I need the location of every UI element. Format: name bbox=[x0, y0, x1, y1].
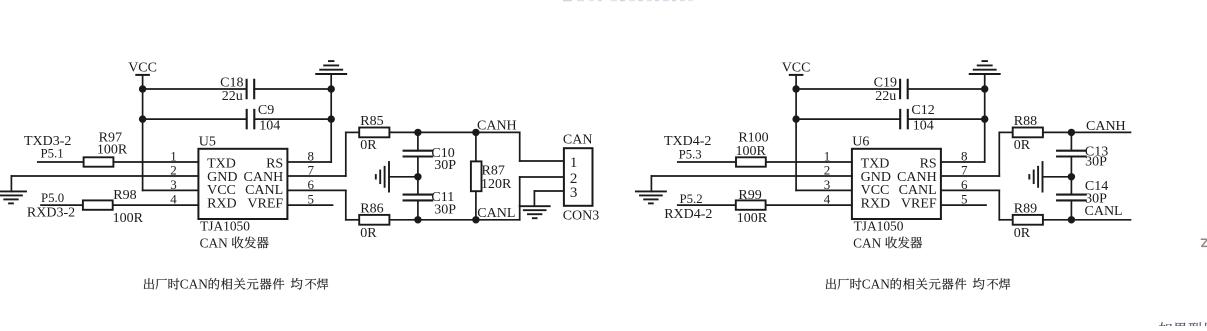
svg-text:CAN: CAN bbox=[563, 133, 593, 148]
wire CANH net bbox=[389, 131, 519, 133]
capacitor C13 30P bbox=[1057, 132, 1108, 176]
ground (earth, between 30P caps) bbox=[376, 162, 418, 192]
value label CAN收发器 bbox=[200, 235, 269, 250]
wire P5.3 to TXD pin 1 bbox=[678, 161, 852, 163]
note 出厂时CAN的相关元器件均不焊 bbox=[144, 277, 328, 292]
note 出厂时CAN的相关元器件均不焊 bbox=[826, 277, 1010, 292]
svg-text:RXD: RXD bbox=[861, 196, 891, 211]
svg-text:P5.3: P5.3 bbox=[679, 147, 702, 161]
capacitor C11 30P bbox=[404, 177, 457, 220]
svg-text:R99: R99 bbox=[738, 188, 761, 203]
junction bbox=[414, 129, 421, 136]
svg-text:3: 3 bbox=[170, 177, 177, 192]
junction bbox=[414, 216, 421, 223]
wire CANH pin 7 bbox=[287, 132, 359, 176]
junction bbox=[1068, 129, 1075, 136]
ground (earth, input side) bbox=[0, 190, 26, 192]
wire RS pin 8 to ground vertical bbox=[287, 161, 331, 163]
svg-text:R88: R88 bbox=[1014, 114, 1037, 129]
clipped page heading (top edge) bbox=[563, 0, 693, 1]
junction bbox=[414, 173, 421, 180]
svg-text:CON3: CON3 bbox=[563, 209, 600, 224]
junction bbox=[981, 85, 988, 92]
junction bbox=[472, 129, 479, 136]
junction bbox=[792, 115, 799, 122]
wire P5.0 to RXD pin 4 bbox=[41, 204, 198, 206]
wire CANH net bbox=[1043, 131, 1131, 133]
svg-text:3: 3 bbox=[570, 185, 578, 201]
junction bbox=[139, 85, 146, 92]
ground (earth, under connector) bbox=[520, 205, 550, 207]
junction bbox=[328, 115, 335, 122]
resistor R97 100R bbox=[84, 131, 128, 167]
wire CANH pin 7 bbox=[941, 132, 1013, 176]
wire top rail 2 (VCC to ground via C9) bbox=[143, 118, 332, 120]
svg-text:RXD3-2: RXD3-2 bbox=[27, 206, 75, 221]
wire GND pin 2 to ground bbox=[651, 176, 852, 191]
connector CON3 bbox=[563, 133, 600, 224]
svg-text:CAN: CAN bbox=[200, 235, 228, 250]
svg-text:CANL: CANL bbox=[1085, 204, 1123, 219]
ground (earth, input side) bbox=[636, 190, 666, 192]
wire CANL pin 6 bbox=[287, 190, 359, 219]
svg-text:P5.1: P5.1 bbox=[41, 147, 64, 161]
svg-text:0R: 0R bbox=[1014, 226, 1031, 241]
svg-text:R98: R98 bbox=[113, 188, 136, 203]
svg-text:0R: 0R bbox=[360, 138, 377, 153]
wire ground vertical to RS pin bbox=[984, 89, 986, 162]
power symbol VCC bbox=[128, 61, 157, 90]
wire CANL net bbox=[389, 219, 519, 221]
wire top rail 1 (VCC to ground via C19) bbox=[796, 88, 985, 90]
wire RS pin 8 to ground vertical bbox=[941, 161, 985, 163]
svg-text:U5: U5 bbox=[199, 135, 216, 150]
svg-text:CAN: CAN bbox=[862, 277, 890, 292]
svg-text:100R: 100R bbox=[97, 143, 128, 158]
svg-text:CANH: CANH bbox=[1086, 119, 1126, 134]
wire GND pin 2 to ground bbox=[11, 176, 198, 191]
clipped note (bottom right corner) bbox=[1159, 322, 1207, 331]
resistor R85 0R bbox=[359, 114, 389, 153]
capacitor C12 104 bbox=[900, 103, 935, 133]
svg-text:R85: R85 bbox=[360, 114, 383, 129]
svg-text:22u: 22u bbox=[875, 89, 896, 104]
power symbol VCC bbox=[782, 61, 811, 90]
wire VREF pin 5 stub bbox=[287, 204, 332, 206]
svg-text:TJA1050: TJA1050 bbox=[854, 219, 904, 234]
svg-text:100R: 100R bbox=[737, 211, 768, 226]
wire P5.2 to RXD pin 4 bbox=[678, 204, 852, 206]
capacitor C19 22u bbox=[874, 76, 908, 105]
svg-text:CAN: CAN bbox=[180, 277, 208, 292]
capacitor C14 30P bbox=[1057, 177, 1108, 220]
svg-text:100R: 100R bbox=[113, 211, 144, 226]
svg-text:R86: R86 bbox=[360, 201, 383, 216]
svg-text:120R: 120R bbox=[481, 177, 512, 192]
capacitor C9 104 bbox=[247, 103, 281, 133]
junction bbox=[472, 216, 479, 223]
wire connector pin 3 to ground bbox=[534, 191, 564, 206]
svg-text:CANH: CANH bbox=[477, 119, 517, 134]
wire ground vertical to RS pin bbox=[330, 89, 332, 162]
resistor R98 100R bbox=[83, 188, 144, 226]
wire VREF pin 5 stub bbox=[941, 204, 986, 206]
resistor R88 0R bbox=[1013, 114, 1043, 153]
svg-text:30P: 30P bbox=[434, 202, 456, 217]
svg-text:22u: 22u bbox=[222, 89, 243, 104]
wire VCC to chip pin 3 bbox=[796, 189, 852, 191]
junction bbox=[1068, 216, 1075, 223]
IC U6 TJA1050 CAN transceiver bbox=[852, 135, 941, 234]
svg-text:104: 104 bbox=[259, 118, 280, 133]
junction bbox=[981, 115, 988, 122]
svg-text:1: 1 bbox=[570, 155, 578, 171]
svg-text:3: 3 bbox=[824, 177, 831, 192]
resistor R87 120R (bus termination) bbox=[471, 132, 512, 219]
wire CANL net bbox=[1043, 219, 1131, 221]
svg-text:VCC: VCC bbox=[128, 61, 157, 76]
wire CANL pin 6 bbox=[941, 190, 1013, 219]
resistor R99 100R bbox=[736, 188, 768, 226]
resistor R100 100R bbox=[736, 131, 769, 167]
ground (earth, between 30P caps) bbox=[1029, 162, 1071, 192]
svg-text:100R: 100R bbox=[736, 144, 767, 159]
svg-text:CAN: CAN bbox=[853, 235, 881, 250]
svg-text:TJA1050: TJA1050 bbox=[200, 219, 250, 234]
svg-text:C9: C9 bbox=[258, 103, 274, 118]
svg-text:P5.2: P5.2 bbox=[680, 192, 703, 206]
value label CAN收发器 bbox=[853, 235, 922, 250]
svg-text:0R: 0R bbox=[1014, 138, 1031, 153]
wire VCC vertical to VCC pin bbox=[795, 89, 797, 190]
svg-text:104: 104 bbox=[913, 118, 934, 133]
junction bbox=[1068, 173, 1075, 180]
svg-text:30P: 30P bbox=[434, 158, 456, 173]
svg-text:VREF: VREF bbox=[901, 196, 937, 211]
svg-text:30P: 30P bbox=[1085, 155, 1107, 170]
wire VCC vertical to VCC pin bbox=[142, 89, 144, 190]
junction bbox=[792, 85, 799, 92]
svg-text:R89: R89 bbox=[1014, 201, 1037, 216]
resistor R86 0R bbox=[359, 201, 389, 241]
svg-text:VREF: VREF bbox=[247, 196, 283, 211]
clipped character (right edge) bbox=[1202, 239, 1207, 246]
svg-text:RXD: RXD bbox=[207, 196, 237, 211]
svg-text:U6: U6 bbox=[852, 135, 869, 150]
svg-text:C12: C12 bbox=[911, 103, 934, 118]
svg-text:VCC: VCC bbox=[782, 61, 811, 76]
wire VCC to chip pin 3 bbox=[143, 189, 199, 191]
ground (earth, top right of chip) bbox=[316, 61, 346, 89]
wire top rail 1 (VCC to ground via C18) bbox=[143, 88, 332, 90]
junction bbox=[328, 85, 335, 92]
svg-text:CANL: CANL bbox=[477, 206, 515, 221]
IC U5 TJA1050 CAN transceiver bbox=[198, 135, 287, 234]
ground (earth, top right of chip) bbox=[970, 61, 1000, 89]
resistor R89 0R bbox=[1013, 201, 1043, 241]
wire CANH to connector pin 1 bbox=[520, 132, 564, 161]
capacitor C18 22u bbox=[220, 76, 254, 105]
svg-text:RXD4-2: RXD4-2 bbox=[664, 207, 712, 222]
junction bbox=[139, 115, 146, 122]
wire CANL to connector pin 2 bbox=[520, 177, 564, 220]
wire top rail 2 (VCC to ground via C12) bbox=[796, 118, 985, 120]
svg-text:0R: 0R bbox=[360, 226, 377, 241]
capacitor C10 30P bbox=[404, 132, 457, 176]
wire P5.1 to TXD pin 1 bbox=[38, 161, 199, 163]
svg-text:P5.0: P5.0 bbox=[41, 191, 64, 205]
